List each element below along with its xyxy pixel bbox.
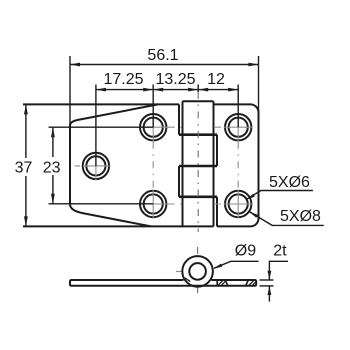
2t extension bottom [260,285,274,287]
side plate outline [70,280,256,286]
label Ø9 [213,243,259,269]
right leaf bottom edge [217,225,251,227]
label 5XØ6 [246,174,313,200]
extension line 23 top [49,126,154,128]
crosshair hole H3 [139,190,168,219]
arrow 5XØ6 [246,194,255,200]
crosshair hole H5 [224,190,253,219]
hole crosshair segments grey solid [75,113,253,219]
dimension line 37 [25,104,27,226]
hole H1 left-middle outer [83,153,109,179]
countersink slant right [246,280,249,286]
arrow 12 right [228,88,238,92]
svg-text:37: 37 [15,159,33,176]
centerline bottom hole row mid [168,203,224,205]
extension line hole1 col [95,85,97,166]
side view [70,256,256,287]
knuckle left vertical [182,101,184,226]
svg-text:23: 23 [43,159,61,176]
arrow 37 bottom [24,216,28,226]
right leaf joint vertical seg2 [216,135,218,166]
extension line pin [197,85,199,93]
hatch zone right [249,280,256,285]
centerline side view horizontal [176,270,213,272]
side knuckle left tangent [185,278,190,282]
svg-text:12: 12 [207,71,225,88]
right leaf right edge [251,112,259,226]
hole H3 inner [144,194,163,213]
svg-text:13.25: 13.25 [155,71,195,88]
svg-text:5XØ8: 5XØ8 [280,208,321,225]
knuckle junction line 2 [179,165,217,168]
arrow 56.1 left [70,63,80,67]
arrow 17.25 left [96,88,106,92]
arrow 13.25 left [153,88,163,92]
hole H3 bottom-left outer [140,191,166,217]
knuckle junction line 3 [179,196,217,199]
side knuckle outer circle [182,256,213,287]
arrow 5XØ8 [249,211,258,217]
dimension 2t [260,242,289,301]
arrow 37 top [24,104,28,114]
extension line 56.1 left [69,56,71,125]
extension line hole2 col [152,85,154,128]
left leaf joint vertical top [178,104,180,134]
arrow 12 left [198,88,208,92]
leader 5XØ8 underline [250,212,324,226]
centerline right hole col mid [237,142,239,190]
label 5XØ8 [249,208,324,226]
centerline hinge pin axis [197,92,199,232]
hole H2 inner [144,118,163,137]
crosshair hole H4 [224,113,253,142]
hole H4 top-right outer [225,114,251,140]
svg-text:2t: 2t [273,242,287,259]
arrow 2t up [268,286,272,295]
right leaf joint vertical seg4 [216,197,218,227]
leader 5XØ6 underline [247,191,313,200]
2t extension top [260,279,274,281]
37 top extension line [23,103,158,105]
svg-text:5XØ6: 5XØ6 [269,174,310,191]
section boundary left [216,280,218,286]
left leaf joint vertical middle [178,166,180,197]
svg-text:Ø9: Ø9 [235,243,256,260]
arrow Ø9 [213,264,222,269]
extension line hole4 col [237,85,239,128]
extension line 23 bottom [49,203,154,205]
hole H2 top-left outer [140,114,166,140]
centerlines grey dashed spans [153,92,238,296]
dimension line 17.25/13.25/12 [96,89,238,91]
leader Ø9 underline [214,261,258,268]
crosshair hole H2 [139,113,168,142]
left leaf outline (top view) [70,104,179,226]
svg-text:56.1: 56.1 [147,47,178,64]
extension line 56.1 right [258,56,260,112]
dimension lines dark [26,56,259,226]
arrow 13.25 right [188,88,198,92]
dimension line 56.1 [70,64,259,66]
hole H1 inner [86,156,105,175]
hole H4 inner [229,118,248,137]
2t lower stem [268,286,270,302]
arrowheads [24,63,259,227]
right leaf top edge [214,104,259,112]
section hatch + countersink [217,280,256,286]
centerline side view vertical [197,247,199,296]
arrow 56.1 right [249,63,259,67]
side knuckle pin hole [189,263,206,280]
countersink slant left [225,280,228,286]
crosshair hole H1 [75,151,111,180]
hole H5 bottom-right outer [225,191,251,217]
centerline top hole row mid [168,126,224,128]
arrow 23 bottom [51,194,55,204]
centerline left hole col mid [152,142,154,190]
knuckle junction line 1 [179,133,217,136]
arrow 23 top [51,127,55,137]
svg-text:17.25: 17.25 [103,71,143,88]
knuckle right vertical [213,101,215,226]
dimension line 23 [52,127,54,204]
2t leader elbow [269,261,288,279]
part bottom edge left + 37 extension [23,225,214,227]
arrow 17.25 right [143,88,153,92]
hatch zone left [218,280,226,285]
arrow 2t down [268,271,272,280]
knuckle top edge [183,100,214,102]
hole H5 inner [229,194,248,213]
dimension texts [15,47,225,176]
